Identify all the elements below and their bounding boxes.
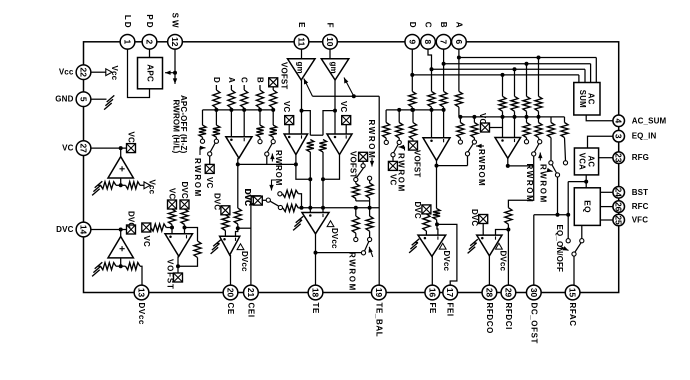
svg-text:DVC: DVC (212, 193, 221, 210)
pin 8 (C) (421, 34, 436, 49)
wire U13 out to S8 line (508, 165, 534, 167)
wire gm1 to R20 top (302, 111, 311, 136)
junction S2 tap on out line (294, 162, 298, 166)
svg-text:VOFST: VOFST (412, 150, 421, 177)
resistor R26 (283, 190, 299, 197)
wire gm1 out (301, 80, 303, 134)
wire R25 top to bus (369, 208, 371, 216)
wire U17 out to pin16 (431, 256, 433, 285)
junction pin7/bus2 (442, 62, 446, 66)
wire fb bottom (178, 258, 198, 267)
svg-text:EQ: EQ (582, 200, 592, 213)
svg-text:gm: gm (296, 62, 305, 74)
resistor R18 (CE fb) (234, 208, 241, 224)
resistor R-D (213, 90, 220, 108)
resistor R34 (409, 123, 416, 140)
junction TE left on bus (308, 206, 312, 210)
Vcc supply arrow (VC divider) (144, 180, 157, 195)
wire R41 drop (526, 117, 528, 123)
junction RFDCI node (506, 228, 510, 232)
svg-text:25: 25 (614, 215, 624, 225)
svg-text:DVC: DVC (470, 209, 479, 226)
resistor R7 (213, 125, 220, 137)
wire gm2 to R21 top (323, 111, 335, 136)
wire S5a to R24 (355, 233, 357, 237)
svg-text:RWROM: RWROM (525, 164, 534, 204)
wire R34 drop (412, 110, 414, 123)
net tap DVC (CEI) (251, 196, 260, 205)
svg-text:RWROM: RWROM (539, 164, 548, 204)
svg-text:C: C (240, 77, 249, 83)
net tap VOFST (S3) (359, 152, 368, 161)
junction U4 out/fb (176, 264, 180, 268)
svg-text:18: 18 (311, 288, 321, 298)
wire R32 to contact (385, 138, 387, 140)
switch contact S1a (200, 139, 204, 143)
svg-text:DVcc: DVcc (240, 251, 249, 272)
junction mini bus / main bus (368, 206, 372, 210)
wire R6 to contact (202, 137, 204, 139)
resistor R36 (471, 123, 478, 138)
svg-text:CE: CE (226, 303, 235, 315)
svg-text:4: 4 (614, 118, 624, 123)
svg-text:RWROM: RWROM (397, 153, 406, 193)
svg-text:26: 26 (614, 202, 624, 212)
wire U4 output (177, 256, 179, 273)
pin 15 (RFAC) (565, 285, 580, 300)
wire S8 pivot down (508, 156, 533, 208)
op-amp U17 (FE) (418, 235, 446, 256)
net tap VC (U13) (481, 123, 490, 132)
switch S5 lever (365, 242, 369, 252)
svg-text:RFDCI: RFDCI (504, 303, 513, 330)
svg-text:15: 15 (568, 288, 578, 298)
wire R8 drop (259, 110, 261, 125)
bus2 (B) (444, 63, 591, 65)
resistor R10 (101, 182, 117, 189)
net tap DVC (RF+) (479, 215, 488, 224)
wire hA elbow to R32 (385, 110, 387, 123)
pin 10 (F) (323, 34, 338, 49)
op-amp U12 (focus in) (423, 138, 450, 161)
junction R30/hA (442, 108, 446, 112)
bus1 (A) (459, 57, 596, 59)
svg-text:FE: FE (428, 303, 437, 314)
op-amp U11 (TE) (302, 213, 329, 234)
svg-text:6: 6 (454, 39, 464, 44)
svg-text:VOFST: VOFST (349, 151, 358, 178)
wire U12 out (436, 161, 438, 166)
resistor R-A (228, 90, 235, 108)
junction DVC fb node (119, 264, 123, 268)
wire R9 drop (272, 110, 274, 125)
gm amp U7 (288, 59, 316, 80)
svg-text:VOFST: VOFST (280, 62, 289, 89)
wire R46 to fb node (436, 220, 439, 225)
resistor R33 (396, 123, 403, 139)
wire R35 to contact (459, 138, 461, 140)
svg-text:DVcc: DVcc (442, 251, 451, 272)
junction FE fb node (435, 222, 439, 226)
svg-text:3: 3 (614, 134, 624, 139)
wire pin6 col to hB (458, 107, 460, 117)
svg-text:AC_SUM: AC_SUM (632, 116, 667, 125)
svg-text:17: 17 (445, 288, 455, 298)
bus line h-A left cluster (203, 109, 274, 111)
junction R34/hA (411, 108, 415, 112)
ground (U11) (293, 216, 303, 230)
bus3 drop to AC SUM (584, 69, 586, 82)
svg-text:DVC: DVC (56, 225, 73, 234)
net tap VC (U9 +) (285, 116, 294, 125)
wire R21 down (322, 152, 324, 179)
wire R42 to contact (538, 138, 541, 140)
resistor R45 (423, 214, 430, 231)
wire gnd to R12 (98, 265, 101, 267)
svg-text:gm: gm (329, 62, 338, 74)
wire mini bus drop (369, 201, 371, 208)
resistor R30 (440, 91, 447, 107)
wire R43 to S9a (550, 138, 552, 161)
junction U10 out / R21 (321, 177, 325, 181)
resistor R-C (241, 90, 248, 108)
DVcc symbol (U18) (496, 243, 508, 271)
wire R20/R21 top link (310, 134, 323, 136)
svg-text:SUM: SUM (578, 90, 587, 108)
resistor R9 (270, 125, 277, 137)
svg-text:+: + (116, 166, 127, 172)
switch contact S6a (384, 140, 388, 144)
op-amp U18 (RF DC) (477, 235, 502, 256)
wire R47 to RFDCI node (507, 224, 509, 229)
wire VCA out to RFAC vert (568, 181, 586, 183)
arrow RWROM to S2 (270, 154, 274, 162)
svg-text:RFC: RFC (632, 202, 649, 211)
wire R38 to hB (514, 111, 516, 117)
svg-text:RWROM: RWROM (477, 149, 486, 187)
wire R37 to hB (502, 111, 504, 117)
svg-text:LD: LD (123, 15, 132, 30)
wire S2 pivot down (266, 156, 268, 164)
svg-text:1: 1 (123, 39, 133, 44)
svg-text:VC: VC (62, 144, 73, 153)
wire VOFST col stub (272, 87, 274, 90)
wire gnd stub U17 (415, 242, 418, 244)
bus3 (C) (432, 68, 586, 70)
junction R40/hB (537, 115, 541, 119)
switch S3 pivot (361, 164, 365, 168)
wire U5 out to S2 tap (238, 163, 296, 165)
wire A col to U5 (230, 110, 232, 137)
wire EQ to pin24 BST (600, 191, 613, 193)
EQ_ON/OFF switch lever (575, 243, 581, 253)
RFAC vertical (567, 182, 569, 239)
junction CE fb node (236, 226, 240, 230)
pin 18 (TE) (308, 285, 323, 300)
op-amp U2 VC buffer (108, 157, 133, 178)
wire B stub (259, 85, 261, 90)
net tap VC (buffer output) (127, 144, 136, 153)
wire C stub (243, 85, 245, 90)
wire pin23 RFG stub (599, 157, 613, 159)
switch S3 contact a (354, 177, 358, 181)
resistor R11 (126, 182, 141, 189)
svg-text:BST: BST (632, 188, 648, 197)
resistor R12 (101, 263, 117, 270)
svg-text:B: B (439, 22, 448, 30)
wire R30 to hA (443, 107, 445, 110)
op-amp U10 (F) (327, 134, 352, 155)
wire to U4 right input (184, 225, 186, 234)
EQ switch contact b (580, 239, 584, 243)
resistor R21 (319, 140, 326, 153)
svg-text:27: 27 (79, 143, 89, 153)
junction gm1 out (300, 109, 304, 113)
junction D/bus (214, 108, 218, 112)
junction AC VCA out (584, 180, 588, 184)
svg-text:DVC: DVC (180, 182, 189, 199)
wire R13 to pin13 DVcc (140, 266, 142, 286)
svg-text:DVcc: DVcc (137, 303, 146, 325)
bus4 (D) (412, 74, 579, 76)
svg-text:14: 14 (79, 225, 89, 235)
pin 17 (FEI) (443, 285, 458, 300)
pin 6 (A) (452, 34, 467, 49)
svg-text:RWROM: RWROM (367, 120, 376, 160)
pin 16 (FE) (425, 285, 440, 300)
pin 25 (VFC) (613, 214, 625, 226)
wire U5 output down (237, 158, 239, 208)
wire R41 to contact (526, 138, 528, 140)
switch S1 pivot (208, 152, 212, 156)
wire S3a to R22 (355, 182, 357, 184)
wire R33 to contact (398, 138, 400, 140)
svg-text:VC: VC (388, 174, 397, 185)
switch S9 contact b (563, 161, 567, 165)
svg-text:C: C (424, 22, 433, 30)
svg-text:Vcc: Vcc (148, 180, 157, 195)
junction pin6/bus1 (457, 56, 461, 60)
wire R38 stub (514, 69, 516, 96)
wire R42 drop (538, 117, 540, 123)
wire TE out to S5 (316, 252, 362, 254)
junction R36/hB (472, 115, 476, 119)
resistor R42 (535, 123, 542, 138)
svg-text:+: + (116, 246, 127, 252)
svg-text:B: B (256, 77, 265, 83)
wire R16 to node (166, 227, 172, 229)
arrow RWROM to S6 (399, 145, 405, 151)
svg-text:2: 2 (145, 39, 155, 44)
wire fb top (185, 228, 198, 242)
pin 30 (DC_OFST) (526, 285, 541, 300)
svg-text:SW: SW (171, 13, 180, 30)
pin 27 (VC) (76, 141, 91, 156)
wire pin27 VC to buffer (91, 147, 127, 149)
wire gm2 out (334, 80, 336, 134)
resistor R15 (181, 209, 188, 225)
net tap VOFST (input col) (269, 78, 278, 87)
wire R22 to mini bus (355, 199, 357, 201)
wire EQ to pin25 VFC (600, 219, 613, 221)
wire D to bus (215, 108, 217, 110)
wire pin7 B down (443, 49, 445, 92)
svg-text:PD: PD (145, 14, 154, 29)
wire DVC node to opamp apex (120, 230, 122, 237)
junction R15/fb (183, 226, 187, 230)
wire CEI vertical (250, 200, 252, 285)
arrow RWROM to S3 (370, 158, 374, 167)
wire R8 to contact (259, 137, 261, 139)
mini bus (356, 200, 370, 202)
wire U13 out (507, 158, 509, 166)
pin 29 (RFDCI) (501, 285, 516, 300)
wire R36 drop (473, 117, 475, 123)
net tap DVC (buffer output) (127, 225, 136, 234)
arrow APC-OFF control down (173, 78, 177, 84)
wire U9 out staircase (296, 155, 310, 180)
net tap DVC (S4) (253, 196, 262, 205)
wire TE left input drop (309, 179, 311, 212)
junction U12 out (435, 164, 439, 168)
junction R33/hA (397, 108, 401, 112)
gain-control arrow U8 (344, 78, 354, 97)
wire EQ bottom to switch (581, 225, 583, 238)
net tap DVC (VOFST upper right) (180, 200, 189, 209)
wire U12 out down to FE fb (436, 166, 438, 209)
pin 14 (DVC) (76, 222, 91, 237)
pin 19 (TE_BAL) (371, 285, 386, 300)
wire U12 out to S7 (437, 165, 468, 167)
bus line h-A right cluster (386, 109, 444, 111)
wire EQ to pin26 RFC (600, 206, 613, 208)
switch S4 pivot (266, 198, 270, 202)
wire pin5 to ground (91, 98, 107, 100)
svg-text:EQ_IN: EQ_IN (632, 132, 657, 141)
junction pin12/APC (173, 71, 177, 75)
switch S2 lever (267, 143, 273, 153)
resistor R-B (256, 90, 263, 108)
svg-text:RFG: RFG (632, 153, 649, 162)
switch S4 contact a (278, 205, 282, 209)
wire AC SUM out to pin4 (586, 115, 613, 121)
pin 5 (GND) (76, 92, 91, 107)
pin 1 (LD) (120, 34, 135, 49)
wire gnd to R10 (98, 184, 101, 186)
junction arrow bus (352, 94, 356, 98)
bus4 drop to AC SUM (578, 75, 580, 83)
wire U18 out to pin28 (488, 256, 490, 286)
wire R20 down (309, 152, 311, 179)
junction DVC input (119, 228, 123, 232)
DVcc symbol (U17) (439, 243, 451, 271)
pin 24 (BST) (613, 187, 625, 199)
junction U5 out (236, 162, 240, 166)
svg-text:Vcc: Vcc (110, 66, 119, 81)
switch S3 lever (357, 168, 364, 178)
svg-text:RWROM (H/L): RWROM (H/L) (172, 100, 181, 154)
net tap DVC (CE+) (221, 206, 230, 215)
wire R11 to Vcc arrow (140, 184, 144, 186)
wire R37 stub (502, 75, 504, 96)
arrow RWROM to S9 (547, 168, 553, 172)
wire pin12 SW down (174, 49, 176, 80)
wire R36 to contact (473, 138, 475, 140)
wire R39 stub (526, 64, 528, 97)
junction R40/bus (537, 56, 541, 60)
junction pin8/bus3 (430, 67, 434, 71)
wire R12 to node (116, 265, 126, 267)
resistor R43 (547, 123, 554, 138)
switch S6 lever (393, 144, 398, 154)
svg-text:DVcc: DVcc (498, 251, 507, 272)
wire R44 drop (564, 117, 566, 123)
resistor R28 (409, 91, 416, 107)
junction R39/bus (525, 62, 529, 66)
wire R26 right bend (298, 194, 301, 208)
wire opamp base to fb node (120, 178, 122, 185)
svg-text:GND: GND (55, 95, 73, 104)
wire xbox to S4 pivot (262, 199, 266, 201)
wire RFDCI node to pin29 (507, 230, 509, 286)
net tap VC (S1) (205, 164, 214, 173)
switch S1 lever (210, 143, 216, 153)
op-amp U5 (CE input amp) (226, 137, 252, 159)
wire R34 to VOFST tap (412, 139, 414, 141)
arrow EQ_ON/OFF to lever (560, 246, 569, 251)
switch S7 pivot (465, 152, 469, 156)
wire pin30 DC_OFST up (533, 215, 535, 286)
wire C to bus (243, 108, 245, 110)
svg-text:12: 12 (170, 37, 180, 47)
wire pin14 DVC to buffer (91, 229, 127, 231)
wire AC VCA out (585, 175, 587, 188)
wire pin3 EQ_IN to AC VCA (588, 136, 613, 148)
ground (VC divider) (92, 181, 102, 195)
switch S5 contact b (368, 237, 372, 241)
wire R40 to hB (538, 111, 540, 117)
wire R27 to bus (298, 207, 301, 209)
pin 22 (Vcc) (76, 65, 91, 80)
wire R33 drop (398, 110, 400, 123)
wire xbox to S3 pivot (362, 161, 364, 164)
junction R29/hA (430, 108, 434, 112)
junction VC input (119, 146, 123, 150)
bus line h-B (459, 116, 565, 118)
wire U6 right input up (236, 228, 238, 236)
wire pin10 F to gm2 (329, 49, 331, 59)
resistor R40 (535, 96, 542, 111)
junction S9/RFAC h-line (556, 213, 560, 217)
ground (U6 minus) (211, 240, 221, 254)
resistor R17 (feedback) (194, 241, 201, 258)
pin 20 (CE) (223, 285, 238, 300)
switch S4 lever (270, 201, 279, 206)
wire R9 to contact (272, 137, 274, 139)
svg-text:Vcc: Vcc (59, 68, 74, 77)
svg-text:8: 8 (423, 39, 433, 44)
resistor R27 (283, 204, 298, 211)
resistor R20 (307, 140, 314, 153)
svg-text:VCA: VCA (578, 153, 587, 170)
svg-text:CEI: CEI (246, 303, 255, 318)
wire U13 right input col (514, 117, 516, 138)
wire fb node to CEI line (238, 227, 251, 229)
switch contact S6b (397, 140, 401, 144)
wire R10 to node (116, 184, 126, 186)
svg-text:13: 13 (137, 288, 147, 298)
junction VC fb node (119, 183, 123, 187)
